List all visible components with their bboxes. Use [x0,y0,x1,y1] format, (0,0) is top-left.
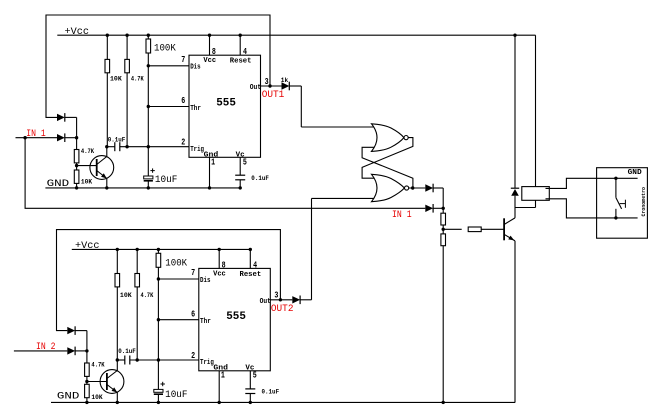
svg-text:1: 1 [211,157,215,167]
junction dot IN1 [23,136,26,139]
relay K1 coil box [522,187,550,201]
IC U2 555 timer box [199,268,270,370]
svg-text:7: 7 [191,268,195,278]
junction dot pin1 ground 2 [218,401,221,404]
svg-text:2: 2 [191,351,195,361]
wire base node to Q2 base [87,381,107,383]
svg-text:Thr: Thr [200,318,211,326]
transistor Q3 NPN output (no circle) [503,218,505,240]
wire Q3 collector up to coil node [514,208,516,218]
junction dot D8 column [442,207,445,210]
resistor R6 10K circuit 2 [115,274,120,287]
diode D1 feedback into IN1 node [57,114,65,121]
wire R4 to ground rail [76,183,78,188]
wire D7 to column [433,187,443,189]
wire Q2 collector up [116,360,118,371]
svg-text:3: 3 [265,77,269,87]
wire feedback frame OUT2 top [57,230,281,331]
svg-text:OUT1: OUT1 [262,89,285,100]
wire R7 down to trigger line 2 [136,287,138,360]
wire Vcc down to flyback diode [514,35,516,188]
wire pin 8 Vcc [209,35,211,55]
resistor R12 bottom of divider [441,234,446,246]
svg-text:10uF: 10uF [155,174,178,186]
wire OUT1 into gate G1 input A [301,126,374,128]
diode D4 feedback into IN2 node [67,327,75,334]
wire latch G1 output to G2 input [362,138,413,179]
svg-text:10uF: 10uF [165,389,187,401]
resistor R13 base resistor [468,227,481,232]
svg-text:Reset: Reset [240,271,262,279]
NOR gate G1 [372,124,404,152]
wire R2 down to trigger line [126,73,128,147]
wire node down to R3 [76,138,78,150]
junction dot Vcc R2 [125,34,128,37]
svg-text:IN 1: IN 1 [26,128,46,139]
wire R11 to node [442,225,444,234]
wire base node to Q1 base [77,165,97,167]
wire D2 to junction [65,137,77,139]
wire Vcc down to relay coil top [535,35,537,186]
junction dot trigger tap 2 [157,358,160,361]
svg-text:5: 5 [243,157,247,167]
wire R1 column from Vcc [106,35,108,59]
wire from D4 to node [75,330,87,332]
wire OUT2 up to gate [311,198,313,299]
junction dot pin1 ground [208,186,211,189]
junction dot C6 ground [249,401,252,404]
junction dot pin4 Vcc [239,34,242,37]
wire trigger line segments [107,146,115,148]
junction dot diodes 2 [85,349,88,352]
junction dot Vcc R5 [147,34,150,37]
svg-text:8: 8 [212,47,216,57]
diode D2 on IN 1 input [57,134,65,141]
wire latch column down [442,188,444,213]
wire R7 column from Vcc 2 [136,249,138,273]
wire pin 1 to ground 2 [218,371,220,403]
junction dot emitter ground 2 [116,401,119,404]
svg-text:Thr: Thr [190,105,201,113]
wire long IN 1 run from input to diode [25,138,425,209]
wire pin 1 to ground [209,157,211,188]
junction dot pin8 Vcc [208,34,211,37]
svg-text:100K: 100K [154,42,176,53]
wire R10 column down to cap C5 [157,267,159,389]
junction dot C5 ground [157,401,160,404]
svg-text:Cronometro: Cronometro [640,187,647,217]
svg-text:555: 555 [216,97,236,109]
junction dot base node Q1 [75,164,78,167]
wire R8 to base node 2 [86,376,88,384]
wire C2 to ground [147,181,149,188]
svg-text:4.7K: 4.7K [91,362,105,370]
wire from D1 to node [65,116,77,118]
junction dot pin6 tap [147,105,150,108]
wire R12 down to ground rail [442,246,444,403]
junction dot latch output [411,186,414,189]
wire R2 column from Vcc [126,35,128,59]
svg-text:1: 1 [221,371,225,381]
wire pin 4 Reset [239,35,241,55]
wire pin 6 Thr [148,106,189,108]
junction dot R12 ground [442,401,445,404]
wire D9 anode down to coil node [514,196,516,208]
wire R6 down to trigger node 2 [116,287,118,360]
svg-text:Vcc: Vcc [203,57,216,65]
svg-text:10K: 10K [81,179,93,187]
junction dot R7 trigger 2 [136,358,139,361]
wire G2 output to diode D7 [409,187,426,189]
wire node to base resistor [443,228,462,230]
wire OUT1 down to gate [300,86,302,127]
wire pin 6 Thr 2 [158,319,198,321]
wire node down to R8 [86,351,88,363]
svg-text:10K: 10K [120,292,133,300]
resistor R4 10K to ground [74,170,79,183]
wire C6 to ground [249,394,251,403]
junction dot OUT1 feedback [268,84,271,87]
diode D6 output OUT2 [292,296,300,303]
svg-text:10K: 10K [110,76,123,84]
wire D3 to corner [289,85,301,87]
wire D6 to corner [300,299,311,301]
wire D8 to junction [433,207,443,209]
wire OUT2 into gate G2 input B [312,197,377,199]
capacitor C4 0.1uF trigger coupling 2 [124,356,126,365]
resistor R10 100K circuit 2 [156,253,161,267]
svg-text:Out: Out [250,84,261,92]
resistor R7 4.7K circuit 2 [135,274,140,287]
svg-text:Dis: Dis [200,277,211,285]
junction dot pin7 tap [147,64,150,67]
svg-text:0.1uF: 0.1uF [262,388,280,396]
junction dot base node Q2 [85,380,88,383]
capacitor C2 10uF polarized [144,176,153,179]
junction dot pin8 Vcc 2 [218,248,221,251]
svg-text:4.7K: 4.7K [141,292,155,300]
junction dot base drive node [442,228,445,231]
capacitor C3 0.1uF control [235,174,245,176]
junction dot collector node 2 [116,358,119,361]
junction dot pin7 tap 2 [157,277,160,280]
junction dot Vcc R7 [136,248,139,251]
svg-text:4: 4 [253,260,257,270]
wire feedback frame OUT1 top [46,15,270,117]
wire +Vcc rail circuit 2 [72,248,251,250]
svg-text:Out: Out [260,298,271,306]
switch SW1 contact [615,178,617,197]
resistor R2 4.7K [125,59,130,72]
wire pin 3 output 2 [270,299,292,301]
junction dot Vcc R10 [157,248,160,251]
resistor R8 4.7K input divider 2 [85,363,90,376]
capacitor C6 0.1uF control 2 [245,388,255,390]
svg-text:0.1uF: 0.1uF [251,175,269,183]
wire R3 to base node [76,163,78,170]
svg-text:GND: GND [57,390,80,402]
wire coil pin A to contact [546,178,638,188]
svg-text:5: 5 [253,371,257,381]
junction dot trigger tap [147,145,150,148]
wire R5 column down to cap C2 [147,53,149,176]
relay contact / chronometer box [597,168,648,239]
svg-text:100K: 100K [165,258,187,269]
node IN2 input wire [14,350,67,352]
wire pin 4 Reset 2 [249,249,251,268]
wire pin 3 output [261,85,282,87]
svg-text:Trig: Trig [190,146,204,154]
wire D5 to junction [75,350,87,352]
svg-text:8: 8 [222,260,226,270]
svg-text:4.7K: 4.7K [81,148,95,156]
diode D8 on IN 1 run [425,205,433,212]
svg-text:GND: GND [628,169,643,177]
resistor R1 10K [105,59,110,72]
svg-text:Trig: Trig [200,359,214,367]
svg-text:2: 2 [181,138,185,148]
junction dot contact top [614,177,617,180]
junction dot pin6 tap 2 [157,318,160,321]
node IN1 input wire [16,137,58,139]
capacitor C5 10uF polarized 2 [154,389,163,392]
svg-text:+Vcc: +Vcc [65,26,90,38]
wire R9 to ground rail 2 [86,398,88,403]
svg-text:0.1uF: 0.1uF [118,348,136,356]
resistor R3 4.7K input divider [74,150,79,163]
wire R10 column from Vcc 2 [157,249,159,253]
junction dot R9 ground [85,401,88,404]
wire R5 column from Vcc [147,35,149,39]
svg-text:4.7K: 4.7K [131,76,145,84]
svg-text:Vcc: Vcc [213,270,226,278]
wire pin 5 to C3 [239,157,241,175]
svg-text:IN 2: IN 2 [36,341,56,352]
svg-text:+Vcc: +Vcc [75,240,100,252]
resistor R9 10K to ground 2 [85,384,90,397]
junction dot diodes [75,136,78,139]
junction dot contact bottom [614,216,617,219]
wire R1 down to trigger node [106,73,108,147]
junction dot emitter ground [105,186,108,189]
wire Q2 emitter down to ground [116,393,118,403]
NOR gate G2 [372,174,405,201]
svg-text:Dis: Dis [190,64,201,72]
wire Q1 collector up [106,147,108,157]
svg-text:OUT2: OUT2 [271,303,294,314]
svg-text:4: 4 [243,47,247,57]
wire R13 to Q3 base [481,228,503,230]
junction dot pin4 Vcc 2 [249,248,252,251]
wire ground rail circuit 2 [51,401,515,403]
wire Q1 emitter down to ground [106,179,108,188]
svg-text:555: 555 [226,311,246,323]
wire pin 8 Vcc 2 [218,249,220,268]
resistor R11 top of divider [441,213,446,225]
junction dot C3 ground [239,186,242,189]
svg-text:0.1uF: 0.1uF [108,137,126,145]
transistor Q2 NPN [100,370,124,394]
diode D3 output OUT1 [282,82,290,89]
IC U1 555 timer box [189,55,261,157]
junction dot Vcc flyback [513,34,516,37]
diode D7 latch output [425,184,433,191]
wire trigger line segments 2 [117,359,125,361]
diode D9 flyback (pointing up) [511,187,519,189]
wire C3 to ground [239,180,241,188]
junction dot collector node [105,145,108,148]
wire coil pin B to contact [546,199,638,218]
svg-text:10K: 10K [91,394,103,402]
transistor Q1 NPN [90,156,114,180]
wire +Vcc rail top [57,34,535,36]
resistor R5 100K [146,39,151,53]
capacitor C1 0.1uF trigger coupling [114,142,116,151]
wire pin 7 Dis [148,65,189,67]
svg-text:IN 1: IN 1 [392,209,412,220]
junction dot R4 ground [75,186,78,189]
wire C5 to ground [157,394,159,402]
svg-text:3: 3 [274,291,278,301]
junction dot Vcc R1 [106,34,109,37]
wire pin 5 to C6 [249,371,251,389]
svg-text:6: 6 [181,96,185,106]
svg-text:Reset: Reset [230,58,252,66]
wire Q3 emitter down to ground end [514,241,516,403]
svg-text:6: 6 [191,309,195,319]
wire pin 7 Dis 2 [158,278,198,280]
wire latch G2 output to G1 input [362,147,413,188]
wire coil node to coil bottom [515,207,536,209]
svg-text:7: 7 [181,55,185,65]
junction dot C2 ground [147,186,150,189]
diode D5 on IN 2 input [67,347,75,354]
wire R6 column from Vcc 2 [116,249,118,273]
wire ground rail circuit 1 [45,187,240,189]
junction dot Vcc R6 [116,248,119,251]
junction dot R2 trigger [125,145,128,148]
junction dot OUT2 feedback [279,298,282,301]
